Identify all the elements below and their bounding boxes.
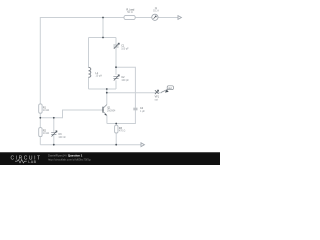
wire C4 to emitter rail xyxy=(107,110,135,123)
node C1-C2 midpoint xyxy=(115,66,117,68)
svg-text:2N3904: 2N3904 xyxy=(107,110,116,113)
svg-text:DC A: DC A xyxy=(153,9,159,12)
node tank top xyxy=(102,37,104,39)
capacitor C4 xyxy=(133,107,145,113)
wire emitter lead xyxy=(106,116,108,124)
svg-text:100 pF: 100 pF xyxy=(121,79,129,82)
wire top rail right of R_load xyxy=(135,17,152,19)
node collector rail xyxy=(106,92,108,94)
svg-text:http://circuitlab.com/c/fd63bc: http://circuitlab.com/c/fd63bc75f5g xyxy=(48,158,91,162)
wire tank top edge xyxy=(89,37,117,39)
svg-text:out: out xyxy=(168,87,172,90)
wire between C1 and C2 xyxy=(115,48,117,75)
svg-text:470 Ω: 470 Ω xyxy=(119,130,126,133)
wire tank bottom edge xyxy=(89,88,117,90)
CircuitLab footer bar xyxy=(0,152,220,165)
wire collector rail xyxy=(107,92,162,94)
node top rail / drop xyxy=(102,17,104,19)
wire collector lead xyxy=(106,89,108,105)
wire base network xyxy=(40,110,102,118)
node C3 top xyxy=(53,117,55,119)
wire tank left edge upper xyxy=(88,38,90,68)
svg-text:LAB: LAB xyxy=(28,160,36,164)
svg-text:out: out xyxy=(155,98,159,101)
resistor R_load xyxy=(124,9,135,20)
capacitor C3 (variable, bias bypass) xyxy=(51,131,66,139)
wire below C2 xyxy=(115,80,117,89)
wire tank left edge lower xyxy=(88,77,90,89)
inductor L1 xyxy=(89,67,103,77)
wire C3 top lead xyxy=(53,118,55,132)
wire R3 top lead xyxy=(115,124,117,126)
svg-text:10 kΩ: 10 kΩ xyxy=(43,109,50,112)
wire R2 to bottom rail xyxy=(39,137,41,145)
resistor R3 xyxy=(115,125,126,133)
wire R3 to bottom rail xyxy=(115,133,117,145)
wire drop from top rail to tank xyxy=(102,18,104,38)
wire left rail R1-R2 segment xyxy=(39,113,41,127)
capacitor C2 (variable) xyxy=(113,75,129,82)
node bias divider xyxy=(39,117,41,119)
wire tap to C4 branch xyxy=(116,67,135,108)
wire C3 bottom lead xyxy=(53,135,55,145)
svg-text:1 µF: 1 µF xyxy=(140,110,145,113)
node tank bottom / collector xyxy=(106,88,108,90)
wire bottom rail xyxy=(40,144,141,146)
port arrow output top right xyxy=(178,16,181,20)
resistor R2 xyxy=(39,128,50,137)
node R3 bottom rail xyxy=(115,144,117,146)
node C3 bottom rail xyxy=(53,144,55,146)
voltage flag probe on collector node xyxy=(155,86,174,102)
node emitter rail / R3 xyxy=(115,123,117,125)
transistor Q1 xyxy=(103,105,116,116)
port arrow bottom right xyxy=(141,143,144,147)
resistor R1 xyxy=(39,104,50,113)
svg-text:100 pF: 100 pF xyxy=(121,47,129,50)
ammeter AM1 xyxy=(152,7,159,21)
svg-text:10 µH: 10 µH xyxy=(96,75,103,78)
capacitor C1 (variable) xyxy=(113,43,129,50)
wire meter to output arrow xyxy=(158,17,178,19)
svg-text:10 kΩ: 10 kΩ xyxy=(43,132,50,135)
wire tank right edge upper xyxy=(115,38,117,45)
svg-text:50 Ω: 50 Ω xyxy=(127,11,132,14)
svg-text:100 nF: 100 nF xyxy=(58,136,66,139)
svg-text:CIRCUIT: CIRCUIT xyxy=(11,155,42,161)
wire top rail xyxy=(40,18,124,104)
